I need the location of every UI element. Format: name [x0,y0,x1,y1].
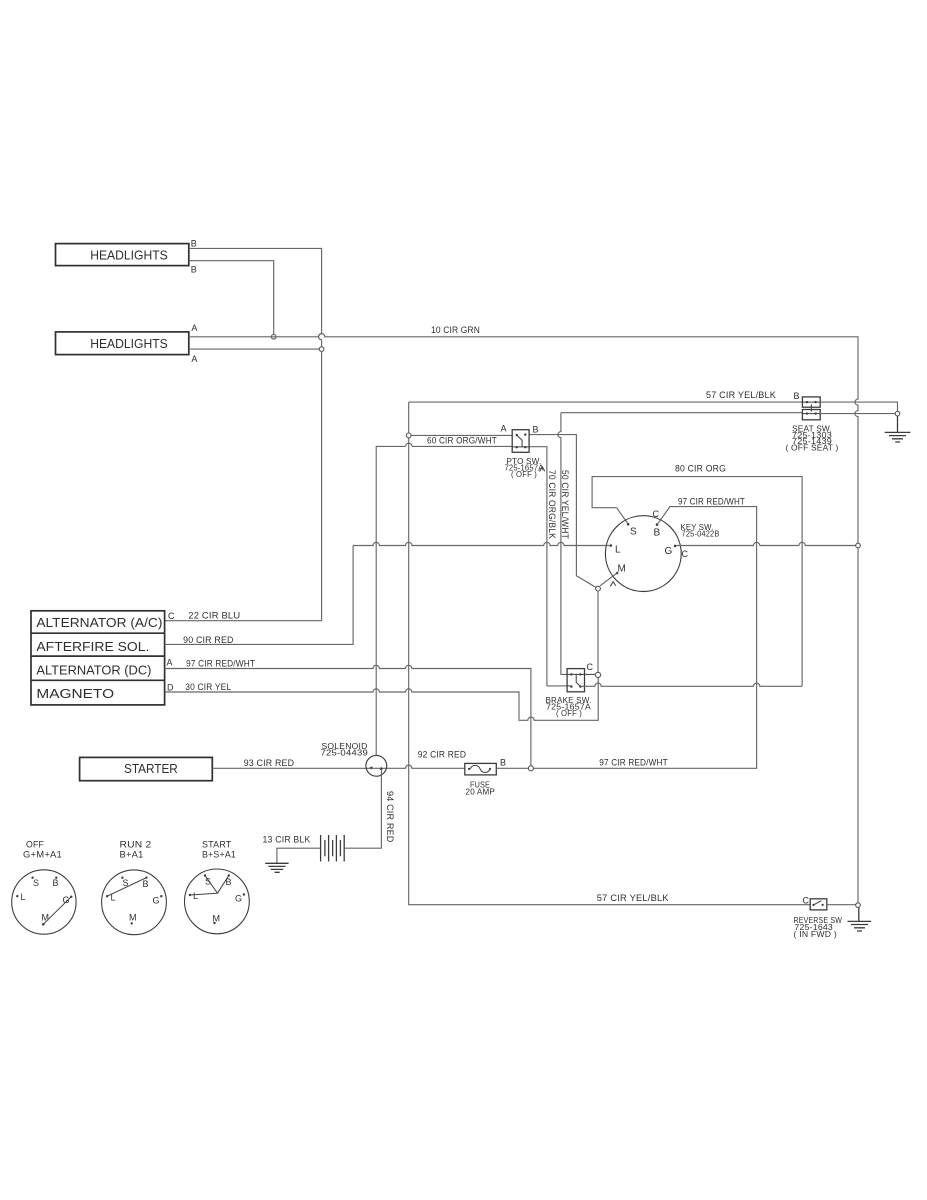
fuse box [465,763,497,775]
wire headlights2 bottom A to node [189,348,319,350]
wire 50 CIR YEL/WHT from seat switch lower pole down to brake switch [558,413,803,675]
svg-text:B: B [654,528,661,539]
battery [321,835,345,862]
svg-text:C: C [168,611,175,621]
svg-text:( OFF SEAT ): ( OFF SEAT ) [786,444,839,453]
wire brake output to 80 CIR ORG loop [582,683,803,686]
starter box [80,757,213,780]
wire key L line to afterfire vertical [353,542,609,545]
wire headlights1 top B to 22 CIR BLU vertical and ALTERNATOR A/C [165,248,322,620]
wire PTO bottom right out, 70 CIR ORG/BLK down to brake switch [529,447,567,686]
svg-text:A: A [167,658,173,668]
svg-text:70 CIR ORG/BLK: 70 CIR ORG/BLK [547,470,557,539]
svg-text:M: M [129,913,137,923]
brake switch box [567,669,595,692]
svg-text:S: S [205,877,211,887]
svg-text:97 CIR RED/WHT: 97 CIR RED/WHT [678,497,745,507]
label REVERSE SW 725-1643 (IN FWD) [794,916,843,939]
svg-text:ALTERNATOR (DC): ALTERNATOR (DC) [36,664,151,678]
svg-text:RUN 2: RUN 2 [120,840,152,850]
key switch circle [605,516,681,592]
svg-text:G: G [665,546,673,557]
wire 90 CIR RED afterfire to key L [165,546,354,645]
svg-text:90 CIR RED: 90 CIR RED [183,635,234,645]
wire PTO B output down to key M junction [529,435,596,588]
node junction on 10 CIR GRN at x=273.7 [271,335,276,340]
wire reverse switch out to ground node [827,904,856,906]
node junction at seat ground [895,411,900,416]
svg-text:MAGNETO: MAGNETO [36,687,114,701]
svg-text:97 CIR RED/WHT: 97 CIR RED/WHT [186,659,255,669]
wire key S diagonal [617,508,628,523]
svg-text:G+M+A1: G+M+A1 [23,850,62,860]
svg-text:97 CIR RED/WHT: 97 CIR RED/WHT [599,758,668,768]
svg-text:M: M [213,914,221,924]
label PTO SW. 725-1657A (OFF) [505,457,544,479]
wire seat switch top out to ground stub [820,402,897,411]
wire starter through solenoid to fuse [212,765,464,768]
key position diagram START [185,840,250,934]
node junction G line on 10 CIR GRN [856,543,861,548]
svg-text:C: C [803,896,810,906]
svg-text:B+A1: B+A1 [120,850,144,860]
wire 60 CIR ORG/WHT to PTO A [411,434,512,436]
svg-text:B: B [191,239,197,249]
reverse switch box [810,899,827,910]
wire PTO bottom feed from solenoid vertical [376,443,512,755]
node junction at x=321.6 on headlights wires [319,347,324,352]
svg-text:( OFF ): ( OFF ) [556,709,582,718]
svg-text:S: S [630,527,637,538]
svg-text:G: G [235,894,242,904]
label SEAT SW. 725-1303 725-1439 (OFF SEAT) [786,425,839,453]
wire key G line to 10 CIR GRN node [677,542,856,545]
svg-text:50 CIR YEL/WHT: 50 CIR YEL/WHT [560,470,570,539]
wire 80 CIR ORG loop from key S to brake output line [592,477,802,687]
wire solenoid to battery 94 CIR RED [345,770,381,848]
alternator/afterfire/magneto box column [31,611,165,705]
svg-text:A: A [191,323,197,333]
wire headlights1 bottom B down to node on 10 CIR GRN [189,261,274,335]
svg-text:B: B [533,425,539,435]
svg-text:HEADLIGHTS: HEADLIGHTS [90,249,168,263]
svg-text:30 CIR YEL: 30 CIR YEL [185,682,231,692]
label SOLENOID 725-04439 [321,742,369,758]
wire key M diagonal to junction node [600,573,617,586]
wire battery negative 13 CIR BLK to ground [277,848,321,863]
svg-text:57 CIR YEL/BLK: 57 CIR YEL/BLK [597,893,669,903]
svg-text:C: C [587,662,594,672]
svg-text:C: C [682,549,689,559]
svg-text:A: A [501,424,507,434]
svg-text:ALTERNATOR (A/C): ALTERNATOR (A/C) [36,616,162,630]
node junction M / PTO-B / brake C [596,586,601,591]
ground (battery) [265,863,288,872]
svg-text:M: M [42,913,50,923]
wire alternator DC 97 CIR RED/WHT to fuse node [165,665,531,765]
label KEY SW. 725-0422B [681,523,720,539]
svg-text:10 CIR GRN: 10 CIR GRN [431,325,480,335]
svg-text:93 CIR RED: 93 CIR RED [244,758,295,768]
wire left frame vertical from 57 line down to reverse switch line [409,402,811,905]
svg-text:22 CIR BLU: 22 CIR BLU [188,611,240,621]
svg-text:725-0422B: 725-0422B [682,530,720,539]
wire seat bottom out to ground node [820,413,895,415]
PTO switch box [512,430,529,453]
svg-text:L: L [193,891,198,901]
svg-text:B: B [53,878,59,888]
svg-text:B: B [143,879,149,889]
headlights box 2 [56,332,189,355]
wire 10 CIR GRN: headlights2 A right, down right side with hops, to reverse node [189,334,858,903]
seat switch boxes [802,397,820,420]
svg-text:STARTER: STARTER [124,762,178,776]
svg-text:AFTERFIRE SOL.: AFTERFIRE SOL. [36,640,149,654]
svg-text:60 CIR ORG/WHT: 60 CIR ORG/WHT [427,436,497,446]
node junction reverse / 10 CIR GRN [856,903,861,908]
svg-text:HEADLIGHTS: HEADLIGHTS [90,337,168,351]
svg-text:G: G [153,896,160,906]
svg-text:92 CIR RED: 92 CIR RED [418,750,467,760]
solenoid circle [366,755,387,776]
arrow marker near 70 CIR label [540,467,545,472]
svg-text:725-04439: 725-04439 [321,749,369,758]
svg-text:A: A [191,354,197,364]
svg-text:D: D [167,683,174,693]
headlights box 1 [56,244,189,266]
svg-text:L: L [21,892,26,902]
svg-text:( OFF ): ( OFF ) [511,470,537,479]
svg-text:( IN FWD ): ( IN FWD ) [794,930,838,939]
wire key B diagonal and 97 CIR RED/WHT down to fuse node [534,507,757,769]
svg-text:B: B [794,391,800,401]
svg-text:13 CIR BLK: 13 CIR BLK [263,835,311,845]
svg-text:B: B [500,758,506,768]
svg-text:80 CIR ORG: 80 CIR ORG [675,464,726,474]
svg-text:L: L [615,545,621,556]
svg-text:B: B [191,265,197,275]
node junction brake C [595,672,600,677]
svg-text:94 CIR RED: 94 CIR RED [385,791,395,843]
svg-text:OFF: OFF [26,840,44,850]
wire 57 CIR YEL/BLK top run to seat switch [409,401,803,403]
key position diagram OFF [12,840,76,935]
svg-text:20 AMP: 20 AMP [466,788,496,797]
key position diagram RUN 2 [102,840,167,935]
label BRAKE SW. 725-1657A (OFF) [546,696,592,718]
wire M node down to brake C node [597,591,599,672]
svg-text:S: S [33,878,39,888]
wire magneto 30 CIR YEL to brake C node [165,678,599,721]
svg-text:START: START [202,840,232,850]
node junction fuse B [528,766,533,771]
svg-text:B+S+A1: B+S+A1 [202,850,236,860]
wire fuse out to node [496,767,528,769]
node junction with 60 CIR ORG/WHT tap [406,433,411,438]
ground (reverse switch) [848,907,872,931]
ground (seat switch) [885,416,911,442]
label FUSE 20 AMP [466,781,496,797]
svg-text:M: M [618,564,627,575]
svg-text:57 CIR YEL/BLK: 57 CIR YEL/BLK [706,390,776,400]
